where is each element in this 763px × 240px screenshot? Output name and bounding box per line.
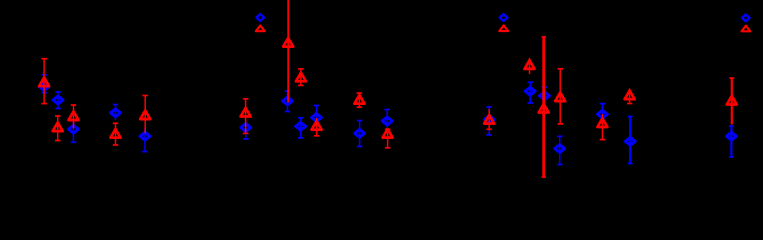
red point P1-1 [39,59,49,104]
blue point P2-6 [382,110,392,128]
blue point P2-1 [241,121,251,139]
red point P2-1 [241,99,251,134]
blue legend marker P2 [256,14,264,21]
blue point P1-2 [53,92,63,109]
red point P1-3 [69,105,79,129]
red point P3-3 (tall thick error bar) [539,37,549,177]
red point P4-1 [727,78,737,125]
blue point P1-1 (hidden behind red triangle) [39,75,49,93]
red point P3-2 [525,58,535,74]
blue point P4-1 (thick error bar) [727,126,737,157]
blue point P3-4 [555,136,565,164]
red point P1-5 [140,96,150,134]
blue point P3-3 [540,87,550,104]
red point P2-3 [296,69,306,86]
blue legend marker P4 [742,15,750,22]
blue point P3-1 [484,107,494,135]
red legend marker P4 [742,26,751,32]
blue point P2-5 [355,121,365,147]
blue point P3-5 [598,104,608,125]
blue point P1-5 [140,128,150,152]
blue legend marker P3 [500,14,508,21]
blue point P3-6 (thick error bar) [625,117,635,164]
red point P3-4 [555,69,565,124]
blue point P2-2 [283,91,293,112]
red point P2-2 (tall clipped error bar) [283,0,293,102]
red point P3-6 [625,88,635,103]
red point P3-5 [597,114,607,140]
blue point P1-3 [69,119,79,142]
blue point P2-3 [296,118,306,138]
red point P2-5 [354,93,364,107]
red legend marker P2 [256,26,265,32]
blue point P2-4 [312,106,322,129]
red legend marker P3 [499,25,508,31]
red point P2-4 [312,118,322,136]
red point P1-2 [53,116,63,141]
red point P3-1 [484,109,494,129]
red point P1-4 [111,123,121,145]
blue point P1-4 [111,105,121,121]
blue point P3-2 [525,82,535,103]
red point P2-6 [383,129,393,148]
